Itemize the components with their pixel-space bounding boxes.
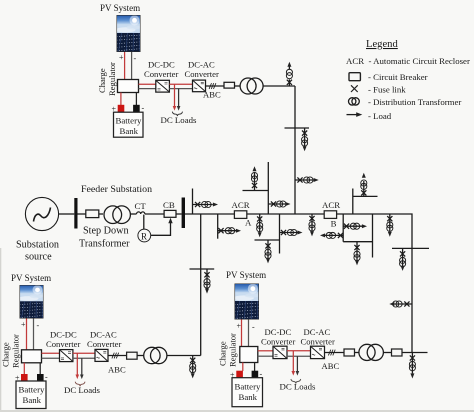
svg-text:-: -: [252, 323, 255, 332]
wire transformer to CT: [131, 213, 137, 215]
PV negative wire: [33, 319, 35, 350]
svg-text:ABC: ABC: [322, 361, 340, 371]
wire regulator to DC-DC negative: [258, 355, 273, 357]
drop x343.2: [320, 214, 373, 265]
svg-text:Charge: Charge: [1, 342, 11, 367]
load arrow: [191, 373, 195, 378]
PV panel: [116, 15, 141, 52]
branch wire right y226.2: [343, 225, 362, 227]
main feeder line: [185, 214, 412, 353]
DC loads drop positive: [76, 353, 78, 374]
transformer: [257, 222, 263, 228]
fuse link: [361, 190, 366, 195]
wire breaker to transformer: [99, 213, 103, 215]
transformer: [396, 301, 402, 307]
distribution transformer: [359, 344, 375, 360]
load arrow: [258, 232, 262, 237]
load arrow: [236, 229, 241, 233]
battery bank box: [232, 378, 263, 407]
svg-text:ABC: ABC: [108, 365, 126, 375]
battery positive terminal: [236, 371, 243, 378]
load arrow: [314, 178, 319, 182]
tap wire up: [254, 173, 256, 191]
svg-text:Step Down: Step Down: [83, 226, 129, 237]
three phase slashes: [328, 350, 335, 356]
transformer: [309, 222, 315, 228]
bottom lateral y352.5: [402, 352, 428, 354]
svg-text:DC-DC: DC-DC: [265, 327, 292, 337]
svg-text:B: B: [331, 218, 337, 228]
svg-text:Converter: Converter: [46, 339, 81, 349]
load arrow: [410, 373, 414, 378]
wire DC-DC to DC-AC positive: [287, 350, 311, 352]
DC loads drop positive: [292, 351, 294, 371]
svg-text:ACR - Automatic Circuit Reclo: ACR - Automatic Circuit Recloser: [346, 56, 470, 66]
fuse link: [281, 230, 286, 235]
svg-text:-: -: [37, 321, 40, 330]
svg-text:- Distribution Transformer: - Distribution Transformer: [368, 97, 461, 107]
branch right on riser y180: [295, 177, 319, 183]
tap wire down x268: [267, 240, 269, 258]
svg-text:ACR: ACR: [232, 200, 250, 210]
svg-text:Converter: Converter: [185, 69, 220, 79]
svg-text:Legend: Legend: [366, 39, 398, 50]
svg-text:PV System: PV System: [100, 3, 140, 13]
crossbar on riser: [285, 128, 310, 151]
distribution transformer top PV: [240, 78, 256, 94]
svg-text:Battery: Battery: [235, 382, 261, 392]
transformer: [354, 251, 360, 257]
PV positive wire: [124, 52, 126, 80]
tap down x192.7: [190, 356, 196, 379]
legend fuse link symbol: [351, 85, 358, 92]
load arrow: [320, 233, 325, 237]
fuse link: [204, 272, 209, 277]
wire breaker to transformer: [137, 355, 144, 357]
wire DC-DC to DC-AC positive: [169, 83, 192, 85]
branch wire right y204: [268, 203, 285, 205]
transformer: [225, 228, 231, 234]
fuse link: [410, 355, 415, 360]
legend load symbol: [347, 114, 358, 116]
fuse link: [218, 228, 223, 233]
drop x372.5: [372, 214, 374, 258]
substation source circle: [25, 197, 58, 230]
wire: [372, 214, 374, 258]
wire DC-AC to breaker: [108, 355, 127, 357]
wire DC-DC to DC-AC negative: [169, 88, 192, 90]
wire DC-DC to DC-AC positive: [73, 352, 95, 354]
central riser wire: [294, 86, 296, 214]
wire DC-DC to DC-AC negative: [73, 357, 95, 359]
svg-text:DC-DC: DC-DC: [148, 60, 175, 70]
wire DC-AC to CB: [206, 85, 224, 87]
svg-text:PV System: PV System: [226, 270, 266, 280]
svg-text:-: -: [134, 54, 137, 63]
DC-AC converter box: [193, 80, 206, 92]
load arrow: [303, 146, 307, 151]
charge regulator box: [240, 347, 258, 363]
fuse link: [302, 131, 307, 136]
wire regulator to DC-DC positive: [258, 350, 273, 352]
transformer: [190, 363, 196, 369]
svg-text:+: +: [119, 53, 124, 62]
wire transformer to breaker 2: [383, 352, 391, 354]
drop x279.5: [255, 214, 303, 263]
DC loads bracket: [291, 379, 301, 383]
wire DC-AC to breaker: [325, 352, 345, 354]
transformer: [277, 201, 283, 207]
wire CB to transformer: [235, 85, 241, 87]
PV positive wire: [241, 320, 243, 347]
load arrow: [355, 260, 359, 265]
svg-text:A: A: [245, 218, 252, 228]
svg-text:-: -: [142, 104, 145, 113]
branch wire left y235.4: [325, 234, 343, 236]
svg-text:Regulator: Regulator: [11, 334, 21, 368]
relay R circle: [138, 229, 151, 242]
fuse link: [404, 301, 409, 306]
load arrow: [266, 258, 270, 263]
load arrow: [213, 203, 218, 207]
source sine symbol: [34, 208, 51, 222]
step down transformer: [104, 206, 122, 224]
charge regulator box: [22, 350, 42, 363]
lateral crossbar y196.4: [353, 195, 378, 197]
CT symbol: [137, 212, 145, 214]
PV negative wire: [131, 52, 133, 80]
svg-text:Converter: Converter: [144, 69, 179, 79]
branch wire right: [218, 230, 236, 232]
tap down x312: [309, 214, 315, 236]
wire DC-DC to DC-AC negative: [287, 355, 311, 357]
wire CT to relay: [143, 215, 145, 229]
battery wires: [242, 363, 244, 372]
distribution transformer: [144, 347, 160, 363]
tap wire down x412.4: [411, 353, 413, 371]
wire transformer to riser: [263, 85, 295, 87]
fuse link: [354, 245, 359, 250]
fuse link: [400, 251, 405, 256]
DC loads drop negative: [296, 356, 298, 371]
load arrow: [297, 231, 302, 235]
tap wire down: [304, 128, 306, 146]
legend circuit breaker symbol: [349, 73, 360, 81]
svg-text:Converter: Converter: [301, 337, 336, 347]
DC loads drop positive: [174, 84, 176, 106]
transformer: [202, 201, 208, 207]
tap wire up x363.8: [363, 181, 365, 196]
riser up x268.3: [243, 162, 291, 214]
tap down x259.7: [257, 214, 263, 237]
battery negative terminal: [37, 374, 44, 381]
fuse link: [287, 80, 292, 85]
PV panel: [19, 285, 44, 319]
svg-text:Converter: Converter: [87, 339, 122, 349]
load arrow: [253, 166, 257, 171]
DC-DC converter box: [60, 350, 73, 362]
lateral crossbar: [285, 127, 310, 129]
lateral crossbar: [190, 268, 215, 270]
busbar 1: [74, 198, 77, 229]
svg-text:ACR: ACR: [322, 200, 340, 210]
DC-DC converter box: [273, 346, 287, 358]
branch wire right: [193, 204, 213, 206]
three phase slashes: [112, 353, 119, 359]
svg-text:Regulator: Regulator: [228, 333, 238, 367]
transformer: [350, 223, 356, 229]
svg-text:DC Loads: DC Loads: [64, 385, 100, 395]
wire: [200, 214, 202, 356]
load arrow: [310, 231, 314, 236]
transformer: [361, 183, 367, 189]
fuse link: [190, 358, 195, 363]
wire regulator to DC-DC negative: [42, 357, 60, 359]
fuse link: [195, 202, 200, 207]
lateral crossbar y248.4: [392, 247, 429, 249]
svg-text:Feeder Substation: Feeder Substation: [81, 184, 152, 195]
transformer: [400, 257, 406, 263]
battery wires: [120, 93, 122, 106]
svg-text:R: R: [141, 232, 147, 242]
svg-text:DC-AC: DC-AC: [90, 330, 117, 340]
CB box: [164, 210, 176, 217]
fuse link: [297, 177, 302, 182]
charge regulator box: [118, 80, 139, 93]
transformer: [409, 361, 415, 367]
breaker box 2: [392, 349, 403, 356]
svg-text:Converter: Converter: [261, 337, 296, 347]
load arrow: [389, 302, 394, 306]
svg-text:- Circuit Breaker: - Circuit Breaker: [368, 72, 428, 82]
scan edge artifacts: [0, 248, 1, 412]
riser up x352.8: [353, 173, 378, 214]
stub riser x192.5: [193, 189, 219, 215]
branch wire right y232.5: [280, 232, 298, 234]
load arrow: [285, 202, 290, 206]
battery bank box: [114, 112, 144, 137]
svg-text:Bank: Bank: [120, 126, 139, 136]
battery positive terminal: [118, 105, 125, 112]
substation breaker box: [86, 210, 99, 218]
short drop x217.7: [218, 214, 241, 239]
load arrow: [388, 232, 392, 237]
fuse link: [271, 201, 276, 206]
svg-text:DC-AC: DC-AC: [304, 327, 331, 337]
long feeder down to bottom-left PV, x200.7: [190, 214, 215, 356]
svg-text:Charge: Charge: [218, 341, 228, 366]
load arrow: [287, 62, 291, 67]
svg-text:Substation: Substation: [16, 240, 59, 251]
fuse link: [387, 216, 392, 221]
DC loads drop negative: [81, 358, 83, 374]
battery negative terminal: [252, 371, 259, 378]
fuse link: [252, 183, 257, 188]
DC-AC converter box: [311, 346, 325, 358]
wire regulator to DC-DC positive: [42, 352, 60, 354]
wire CB to busbar2: [176, 213, 182, 215]
svg-text:Regulator: Regulator: [107, 62, 117, 96]
transformer: [302, 137, 308, 143]
breaker box 1: [344, 349, 355, 356]
transformer: [265, 249, 271, 255]
battery wires: [23, 363, 25, 375]
load arrow: [362, 224, 367, 228]
svg-text:CT: CT: [135, 201, 147, 211]
svg-text:DC-AC: DC-AC: [188, 60, 215, 70]
branch wire: [295, 179, 314, 181]
svg-text:source: source: [25, 252, 52, 263]
transformer: [330, 232, 336, 238]
wire relay to CB trip: [151, 223, 171, 236]
tap down x389.8: [387, 214, 393, 237]
three phase slashes: [209, 83, 216, 89]
DC-AC converter box: [95, 349, 108, 361]
svg-text:Battery: Battery: [19, 385, 45, 395]
svg-text:Transformer: Transformer: [79, 239, 130, 250]
svg-text:DC-DC: DC-DC: [50, 330, 77, 340]
transformer: [204, 279, 210, 285]
svg-text:DC Loads: DC Loads: [161, 115, 197, 125]
battery negative terminal: [133, 105, 140, 112]
load arrow: [362, 173, 366, 178]
tap wire down x402.6: [402, 248, 404, 266]
DC-DC converter box: [156, 80, 170, 92]
battery bank box: [16, 381, 46, 409]
load tap up at riser top: [286, 62, 292, 86]
branch wire left y304: [395, 303, 413, 305]
fuse link: [338, 233, 343, 238]
wire regulator to DC-DC negative: [139, 88, 156, 90]
wire breaker to transformer: [355, 352, 360, 354]
svg-text:+: +: [237, 322, 242, 331]
transformer: [251, 176, 257, 182]
DC loads bracket: [75, 382, 85, 386]
transformer: [286, 73, 292, 79]
PV negative wire: [248, 320, 250, 347]
fuse link: [265, 243, 270, 248]
svg-text:DC Loads: DC Loads: [280, 382, 316, 392]
svg-text:CB: CB: [163, 200, 175, 210]
battery positive terminal: [21, 374, 28, 381]
fuse link: [309, 216, 314, 221]
svg-text:- Fuse link: - Fuse link: [368, 85, 406, 95]
PV positive wire: [26, 319, 28, 350]
lateral crossbar y241.7: [343, 241, 372, 243]
fuse link: [344, 224, 349, 229]
breaker box: [127, 352, 138, 359]
busbar 2: [182, 198, 185, 229]
fuse link: [257, 216, 262, 221]
transformer: [304, 177, 310, 183]
svg-text:+: +: [21, 320, 26, 329]
PV panel: [233, 284, 259, 320]
lateral crossbar y240: [255, 239, 280, 241]
svg-text:Bank: Bank: [23, 395, 42, 405]
load arrow: [205, 289, 209, 294]
svg-text:- Load: - Load: [368, 111, 392, 121]
breaker box top PV: [224, 82, 235, 88]
tap wire down x357: [356, 242, 358, 261]
wire source to busbar: [59, 213, 75, 215]
svg-text:Charge: Charge: [97, 68, 107, 93]
DC loads drop negative: [178, 89, 180, 107]
lateral crossbar: [243, 190, 269, 192]
tap wire down: [206, 269, 208, 288]
wire transformer to feeder: [167, 355, 201, 357]
transformer: [387, 222, 393, 228]
legend distribution transformer symbol: [349, 98, 356, 105]
svg-text:Battery: Battery: [116, 116, 142, 126]
wire regulator to DC-DC positive: [139, 83, 156, 85]
svg-text:PV System: PV System: [11, 273, 51, 283]
load arrow: [401, 266, 405, 271]
transformer: [287, 229, 293, 235]
svg-text:-: -: [45, 373, 48, 382]
DC loads bracket: [172, 112, 182, 116]
wire busbar1 to breaker: [78, 213, 86, 215]
svg-text:Bank: Bank: [239, 392, 258, 402]
